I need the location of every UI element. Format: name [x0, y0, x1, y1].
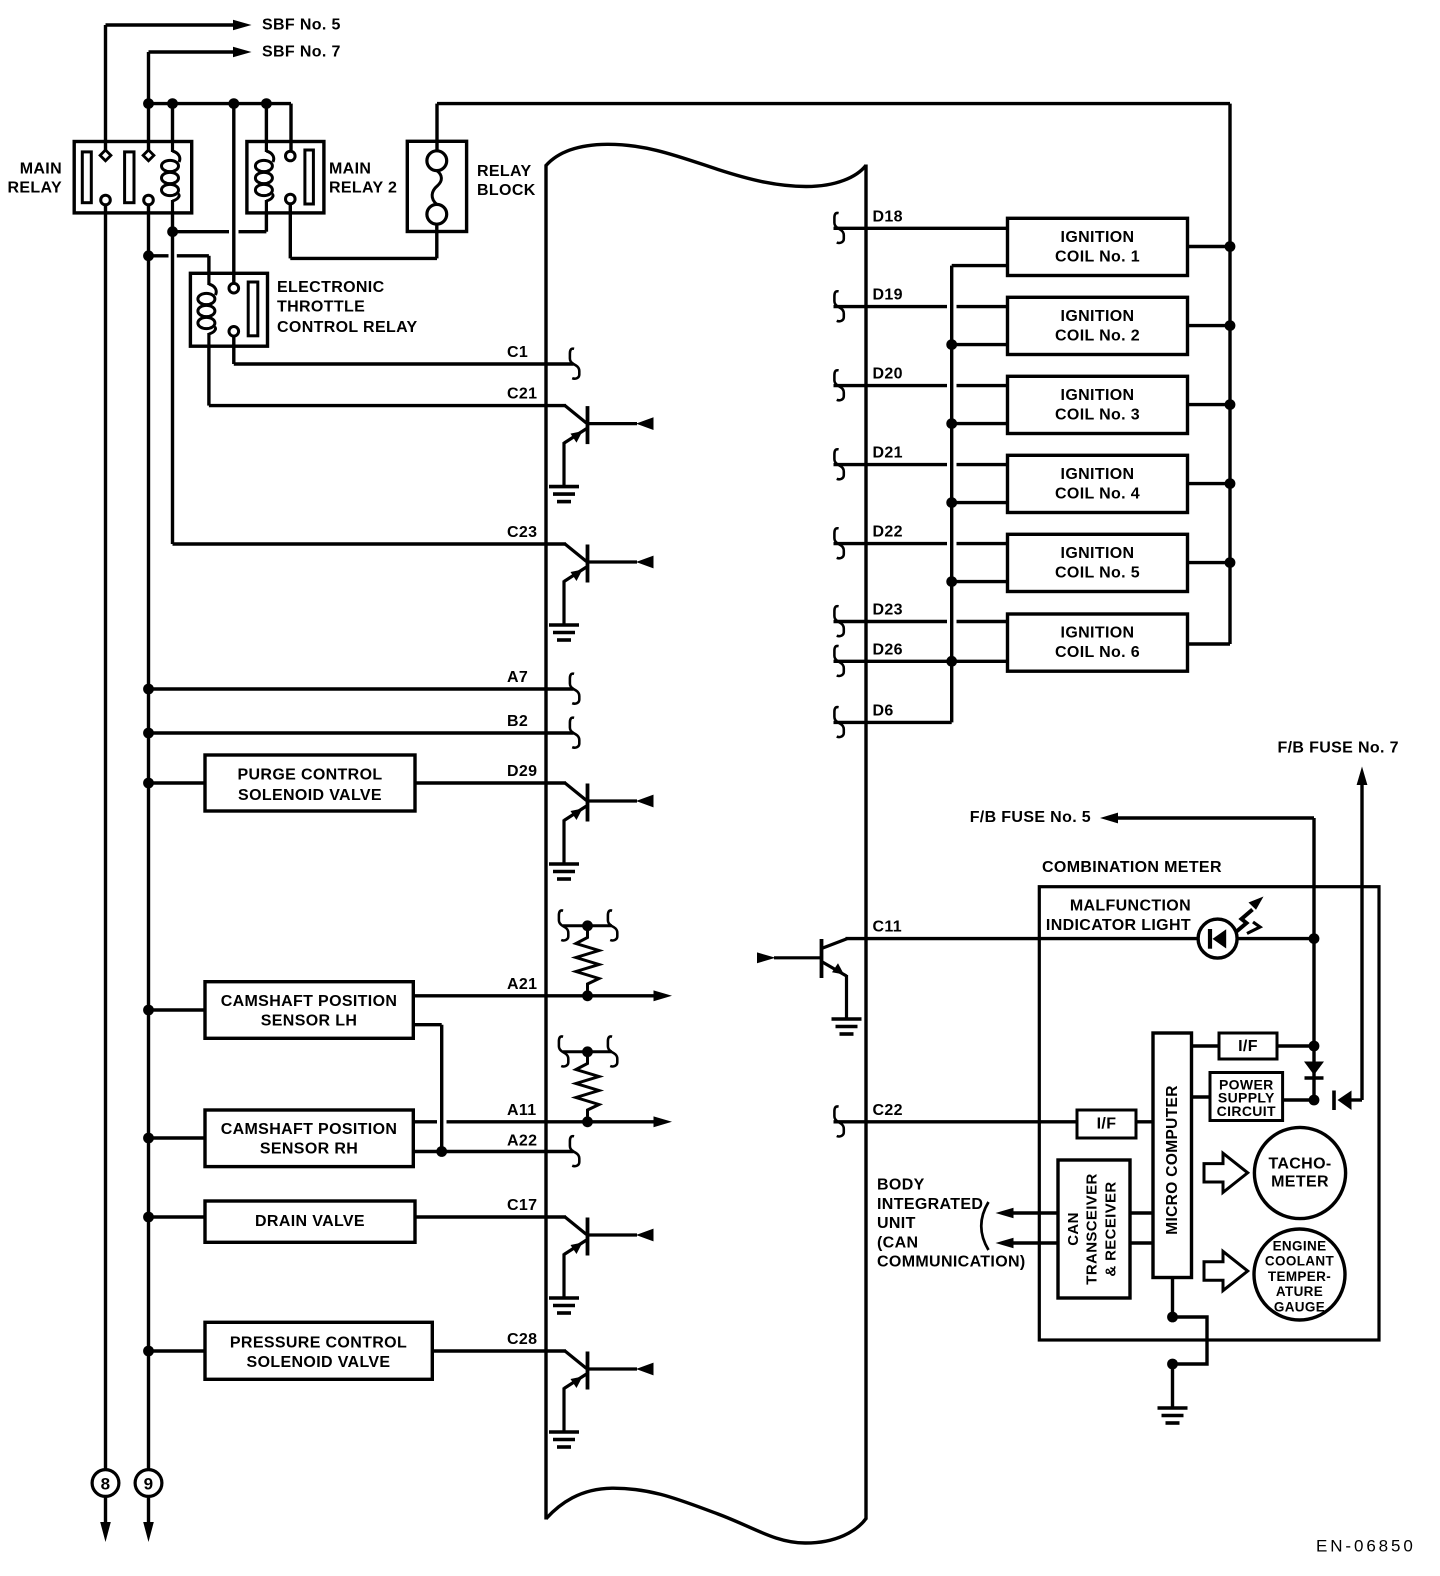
wire bus down to ETC relay top pin (long vertical): [232, 104, 235, 284]
node pressure valve branch: [143, 1346, 154, 1357]
component IGNITION COIL No. 2 box: [1008, 297, 1188, 354]
connector squiggle B2: [570, 718, 579, 748]
node camshaft RH branch: [143, 1133, 154, 1144]
diode pointing down: [1304, 1062, 1324, 1076]
node I/F junction: [1309, 1041, 1320, 1052]
connector squiggle D22: [834, 528, 843, 558]
svg-text:COMBINATION METER: COMBINATION METER: [1042, 859, 1222, 876]
wire C17: [415, 1215, 566, 1218]
wire D20 right part (jump over common line): [957, 384, 1008, 387]
svg-text:COIL No. 5: COIL No. 5: [1055, 564, 1140, 581]
wire D29: [415, 781, 566, 784]
wire ground bypass loop: [1173, 1317, 1208, 1364]
wire power bus left segment: [149, 102, 292, 105]
svg-text:INDICATOR LIGHT: INDICATOR LIGHT: [1046, 917, 1191, 934]
arrowhead A21: [654, 990, 673, 1001]
wire A22: [413, 1150, 573, 1153]
node MIL junction: [1309, 933, 1320, 944]
node bus junction at x=148.5: [143, 98, 154, 109]
coil ETC relay: [198, 275, 216, 346]
wire D22 right part (jump over common line): [957, 542, 1008, 545]
svg-text:CONTROL RELAY: CONTROL RELAY: [277, 319, 418, 336]
svg-text:D22: D22: [873, 524, 903, 541]
node A7 branch: [143, 684, 154, 695]
svg-text:CIRCUIT: CIRCUIT: [1217, 1103, 1276, 1119]
svg-text:C17: C17: [507, 1197, 537, 1214]
gauge ENGINE COOLANT TEMPERATURE circle: [1254, 1229, 1345, 1320]
svg-text:ATURE: ATURE: [1276, 1284, 1323, 1299]
component CAMSHAFT POSITION SENSOR LH box: [205, 982, 413, 1039]
arrowhead down 9: [143, 1522, 154, 1542]
svg-text:TACHO-: TACHO-: [1268, 1156, 1331, 1173]
node common line junction coil 5: [946, 576, 957, 587]
svg-text:F/B FUSE No. 5: F/B FUSE No. 5: [970, 809, 1091, 826]
wire CAN bus out 1: [1012, 1211, 1058, 1214]
wire to chassis ground: [1171, 1364, 1174, 1407]
svg-text:TRANSCEIVER: TRANSCEIVER: [1084, 1173, 1101, 1284]
pin diamond MAIN RELAY contact 1 top: [100, 150, 111, 161]
svg-text:RELAY 2: RELAY 2: [329, 180, 397, 197]
wire F/B FUSE No. 5 horizontal: [1117, 816, 1314, 819]
node coil 5 output on bus: [1225, 557, 1236, 568]
gauge TACHO-METER circle: [1254, 1127, 1345, 1218]
node A22 junction: [436, 1146, 447, 1157]
connector squiggle A7: [570, 674, 579, 704]
transistor at C23 (ECM output driver): [564, 544, 654, 624]
block arrow to coolant gauge: [1204, 1251, 1248, 1290]
wire D22 left part: [834, 542, 948, 545]
diode pointing left: [1332, 1091, 1336, 1111]
svg-text:DRAIN VALVE: DRAIN VALVE: [255, 1213, 365, 1230]
transistor at C28 (ECM output driver): [564, 1351, 654, 1431]
connector squiggle D23: [834, 606, 843, 636]
wire diode to F/B FUSE No.7 line: [1351, 1098, 1362, 1101]
wire D18 to ignition coil 1: [834, 227, 1008, 230]
fusible link bottom terminal circle: [427, 204, 447, 224]
relay MAIN RELAY box: [74, 142, 192, 213]
wire camshaft LH lower output: [413, 1023, 441, 1026]
svg-text:D20: D20: [873, 366, 903, 383]
svg-text:SENSOR RH: SENSOR RH: [260, 1141, 358, 1158]
component CAMSHAFT POSITION SENSOR RH box: [205, 1110, 413, 1167]
svg-text:COIL No. 4: COIL No. 4: [1055, 485, 1140, 502]
svg-text:A11: A11: [507, 1102, 537, 1119]
connector squiggle D18: [834, 213, 843, 243]
component PURGE CONTROL SOLENOID VALVE box: [205, 755, 415, 811]
svg-text:COIL No. 6: COIL No. 6: [1055, 644, 1140, 661]
svg-text:A21: A21: [507, 976, 537, 993]
svg-text:RELAY: RELAY: [7, 180, 62, 197]
svg-text:A22: A22: [507, 1133, 537, 1150]
pull-up resistor network above A21: [563, 924, 612, 927]
wire C1 from ETC relay to ECM: [234, 362, 574, 365]
wire C22 to I/F: [834, 1120, 1078, 1123]
wire relay coil link left part: [173, 230, 230, 233]
wire camshaft LH down to A22 node: [440, 1025, 443, 1152]
wire MAIN RELAY coil to junction: [171, 213, 174, 232]
wire ignition common vertical line: [950, 266, 953, 723]
svg-text:INTEGRATED: INTEGRATED: [877, 1196, 983, 1213]
svg-text:8: 8: [101, 1474, 111, 1493]
wire D21 right part (jump over common line): [957, 463, 1008, 466]
wire SBF7 vertical to MAIN RELAY pin: [147, 52, 150, 150]
connector circle 8: [92, 1470, 119, 1497]
ECM block top wavy edge: [546, 144, 866, 186]
node drain valve branch: [143, 1212, 154, 1223]
transistor at D29 (ECM output driver): [564, 783, 654, 863]
wire main vertical line x=105.5: [104, 205, 107, 1470]
wire I/F to diode node: [1277, 1044, 1314, 1047]
wire I/F left to micro computer: [1136, 1120, 1153, 1123]
wire RELAY BLOCK bottom lead: [435, 224, 438, 258]
wire D19 left part: [834, 305, 948, 308]
contact bar 1 MAIN RELAY: [82, 152, 91, 203]
wire micro computer to power supply: [1192, 1095, 1210, 1098]
svg-text:IGNITION: IGNITION: [1061, 625, 1135, 642]
svg-text:MICRO COMPUTER: MICRO COMPUTER: [1164, 1085, 1181, 1235]
svg-text:METER: METER: [1271, 1174, 1329, 1191]
wire A7: [149, 687, 574, 690]
wire ignition coil 5 output: [1188, 561, 1231, 564]
component I/F box left: [1077, 1110, 1136, 1138]
wire F/B FUSE No. 5 vertical down: [1312, 818, 1315, 1100]
svg-text:C1: C1: [507, 344, 528, 361]
svg-text:C28: C28: [507, 1331, 537, 1348]
node camshaft LH branch: [143, 1005, 154, 1016]
node A21 resistor top: [582, 920, 593, 931]
svg-text:I/F: I/F: [1238, 1038, 1258, 1055]
node coil 1 output on bus: [1225, 241, 1236, 252]
pin circle MAIN RELAY contact 1 bottom: [101, 195, 111, 205]
connector squiggle D6: [834, 707, 843, 737]
svg-text:MAIN: MAIN: [20, 161, 62, 178]
component IGNITION COIL No. 4 box: [1008, 455, 1188, 512]
wire micro computer to ground loop: [1171, 1278, 1174, 1318]
ground at D29 transistor emitter: [549, 862, 579, 866]
component COMBINATION METER box: [1039, 887, 1379, 1340]
wire power supply circuit to diode node: [1283, 1098, 1314, 1101]
svg-text:PRESSURE CONTROL: PRESSURE CONTROL: [230, 1335, 407, 1352]
svg-text:& RECEIVER: & RECEIVER: [1103, 1181, 1120, 1276]
svg-text:D29: D29: [507, 763, 537, 780]
wire below connector 8: [104, 1497, 107, 1525]
node A21 junction on wire: [582, 990, 593, 1001]
wire ignition coil 3 output: [1188, 403, 1231, 406]
svg-text:MAIN: MAIN: [329, 161, 371, 178]
node coil link junction: [167, 226, 178, 237]
wire D23 right part (jump over common line): [957, 620, 1008, 623]
wire common to coil 2 lower terminal: [952, 343, 1008, 346]
wire bus corner down to MAIN RELAY 2 top pin: [289, 104, 292, 151]
pin circle ETC relay top: [229, 283, 239, 293]
connector squiggle C22: [834, 1106, 843, 1136]
svg-text:C21: C21: [507, 386, 537, 403]
svg-text:COIL No. 3: COIL No. 3: [1055, 406, 1140, 423]
connector circle 9: [135, 1470, 162, 1497]
svg-text:D21: D21: [873, 445, 903, 462]
node common line junction coil 3: [946, 418, 957, 429]
ECM block bottom wavy edge: [546, 1488, 866, 1543]
arrowhead A11: [654, 1116, 673, 1127]
node ground loop bottom: [1167, 1359, 1178, 1370]
arrowhead SBF No. 7: [233, 47, 252, 57]
connector squiggle D26: [834, 646, 843, 676]
ground at C21 transistor emitter: [549, 485, 579, 489]
node A11 junction on wire: [582, 1116, 593, 1127]
svg-text:CAMSHAFT POSITION: CAMSHAFT POSITION: [221, 1121, 398, 1138]
wire A11 left part: [413, 1120, 437, 1123]
fusible link S-curve: [432, 171, 441, 205]
wire D6: [834, 721, 952, 724]
connector squiggle left of A21 resistor: [559, 910, 568, 940]
wire MAIN RELAY 2 coil bottom lead: [265, 213, 268, 232]
component IGNITION COIL No. 5 box: [1008, 534, 1188, 591]
connector squiggle D21: [834, 449, 843, 479]
wire A21: [413, 994, 656, 997]
ground at C23 transistor emitter: [549, 623, 579, 627]
relay ELECTRONIC THROTTLE CONTROL RELAY box: [190, 273, 267, 346]
svg-text:ENGINE: ENGINE: [1273, 1238, 1327, 1253]
svg-text:THROTTLE: THROTTLE: [277, 299, 365, 316]
wire common to coil 1 lower terminal: [952, 264, 1008, 267]
node bus junction at x=233.8: [228, 98, 239, 109]
svg-text:COOLANT: COOLANT: [1265, 1254, 1335, 1269]
ground at C17 transistor emitter: [549, 1296, 579, 1300]
svg-text:IGNITION: IGNITION: [1061, 466, 1135, 483]
node power supply junction: [1309, 1095, 1320, 1106]
svg-text:SOLENOID VALVE: SOLENOID VALVE: [247, 1354, 391, 1371]
ground at C11 transistor emitter: [832, 1017, 862, 1021]
wire micro computer to I/F top: [1192, 1044, 1219, 1047]
LED lightning arrow: [1237, 910, 1253, 932]
wire D19 right part (jump over common line): [957, 305, 1008, 308]
wire bus to MAIN RELAY coil: [171, 104, 174, 142]
contact bar 2 MAIN RELAY: [125, 152, 134, 203]
wire main vertical line x=148.5: [147, 205, 150, 1470]
wire ETC coil bottom down to C21: [207, 346, 210, 405]
node bus junction at x=266.4: [261, 98, 272, 109]
svg-text:COMMUNICATION): COMMUNICATION): [877, 1254, 1026, 1271]
svg-text:A7: A7: [507, 669, 528, 686]
wire C21 from ETC coil to ECM: [209, 404, 566, 407]
coil MAIN RELAY 2: [255, 142, 273, 213]
wire power bus right segment to ignition coils: [437, 102, 1230, 105]
wire to drain valve: [149, 1215, 206, 1218]
wire ignition coil 6 output: [1188, 642, 1231, 645]
arrowhead left F/B FUSE No. 5: [1100, 813, 1118, 824]
svg-text:D23: D23: [873, 602, 903, 619]
wire F/B FUSE No. 7 vertical: [1360, 783, 1363, 1100]
wire CAN to micro computer 2: [1130, 1241, 1153, 1244]
svg-text:SBF No. 7: SBF No. 7: [262, 44, 341, 61]
connector arc body integrated unit: [981, 1202, 988, 1250]
coil MAIN RELAY: [162, 142, 180, 213]
pin circle MAIN RELAY 2 top: [286, 151, 296, 161]
wire bus down to RELAY BLOCK: [435, 104, 438, 151]
wire ETC relay coil feed left part: [149, 254, 169, 257]
connector squiggle A22: [570, 1136, 579, 1166]
ground at C28 transistor emitter: [549, 1430, 579, 1434]
svg-text:COIL No. 1: COIL No. 1: [1055, 248, 1140, 265]
resistor at A21: [576, 930, 599, 991]
svg-text:UNIT: UNIT: [877, 1215, 916, 1232]
pin circle MAIN RELAY contact 2 bottom: [144, 195, 154, 205]
pin circle MAIN RELAY 2 bottom: [286, 194, 296, 204]
contact bar ETC relay: [248, 282, 258, 336]
svg-text:PURGE CONTROL: PURGE CONTROL: [238, 767, 383, 784]
wire D20 left part: [834, 384, 948, 387]
node ETC relay feed junction: [143, 250, 154, 261]
wire SBF No. 5 feed: [106, 23, 234, 26]
svg-text:BLOCK: BLOCK: [477, 182, 536, 199]
svg-text:BODY: BODY: [877, 1177, 925, 1194]
svg-text:CAN: CAN: [1065, 1212, 1082, 1246]
wire to camshaft sensor RH: [149, 1136, 206, 1139]
node coil 3 output on bus: [1225, 399, 1236, 410]
svg-text:IGNITION: IGNITION: [1061, 308, 1135, 325]
svg-text:B2: B2: [507, 713, 528, 730]
component PRESSURE CONTROL SOLENOID VALVE box: [205, 1322, 432, 1379]
svg-text:D6: D6: [873, 702, 894, 719]
wire ignition coil 4 output: [1188, 482, 1231, 485]
svg-text:GAUGE: GAUGE: [1274, 1300, 1325, 1315]
svg-text:D18: D18: [873, 208, 903, 225]
component CAN TRANSCEIVER & RECEIVER box: [1058, 1160, 1130, 1298]
wire CAN bus out 2: [1012, 1241, 1058, 1244]
pin circle ETC relay bottom: [229, 327, 239, 337]
svg-text:D19: D19: [873, 287, 903, 304]
component POWER SUPPLY CIRCUIT box: [1210, 1073, 1283, 1121]
svg-text:SBF No. 5: SBF No. 5: [262, 17, 341, 34]
svg-text:IGNITION: IGNITION: [1061, 229, 1135, 246]
arrowhead SBF No. 5: [233, 20, 252, 30]
wire C11 to malfunction indicator light: [846, 937, 1199, 940]
svg-text:SENSOR LH: SENSOR LH: [261, 1013, 358, 1030]
LED malfunction indicator light: [1198, 919, 1237, 958]
svg-text:EN-06850: EN-06850: [1316, 1537, 1416, 1556]
arrowhead up F/B FUSE No. 7: [1357, 767, 1368, 786]
node common line junction coil 4: [946, 497, 957, 508]
wire common to coil 5 lower terminal: [952, 580, 1008, 583]
wire LED to F/B No.5 line: [1237, 937, 1314, 940]
node coil 2 output on bus: [1225, 320, 1236, 331]
transistor at C17 (ECM output driver): [564, 1217, 654, 1297]
transistor at C21 (ECM output driver): [564, 406, 654, 486]
pull-up resistor network above A11: [563, 1050, 612, 1053]
relay block box: [407, 141, 466, 231]
wire A11 right part (jump over): [447, 1120, 657, 1123]
svg-text:MALFUNCTION: MALFUNCTION: [1070, 898, 1191, 915]
svg-text:F/B FUSE No. 7: F/B FUSE No. 7: [1278, 740, 1399, 757]
node D26 on common line: [946, 656, 957, 667]
ground below combination meter: [1158, 1406, 1188, 1410]
wire to camshaft sensor LH: [149, 1008, 206, 1011]
wire from relay coils down to C23: [171, 232, 174, 544]
svg-text:(CAN: (CAN: [877, 1234, 918, 1251]
svg-text:C23: C23: [507, 524, 537, 541]
wire SBF5 vertical to MAIN RELAY pin: [104, 25, 107, 150]
arrowhead down 8: [100, 1522, 111, 1542]
component IGNITION COIL No. 3 box: [1008, 376, 1188, 433]
svg-text:9: 9: [144, 1474, 154, 1493]
svg-text:COIL No. 2: COIL No. 2: [1055, 327, 1140, 344]
wire common to coil 4 lower terminal: [952, 501, 1008, 504]
node A11 resistor top: [582, 1046, 593, 1057]
svg-text:IGNITION: IGNITION: [1061, 387, 1135, 404]
wire C28: [432, 1349, 566, 1352]
pin diamond MAIN RELAY contact 2 top: [143, 150, 154, 161]
node purge valve branch: [143, 778, 154, 789]
wire MAIN RELAY 2 to RELAY BLOCK: [290, 257, 437, 260]
resistor at A11: [576, 1056, 599, 1117]
node ground loop top: [1167, 1312, 1178, 1323]
ECM block left edge: [544, 165, 547, 1520]
svg-text:C22: C22: [873, 1102, 903, 1119]
wire D26 to ignition coil 6: [834, 660, 1008, 663]
wire relay coil link right part (jump over): [239, 230, 267, 233]
component IGNITION COIL No. 1 box: [1008, 218, 1188, 275]
svg-text:RELAY: RELAY: [477, 163, 532, 180]
wire CAN to micro computer 1: [1130, 1211, 1153, 1214]
relay MAIN RELAY 2 box: [247, 142, 324, 213]
wire bus to MAIN RELAY 2 coil: [265, 104, 268, 142]
connector squiggle left of A11 resistor: [559, 1036, 568, 1066]
connector squiggle right of A11 resistor: [608, 1036, 617, 1066]
wire ETC relay coil feed right part (jump over): [177, 254, 209, 257]
svg-text:D26: D26: [873, 641, 903, 658]
wire D21 left part: [834, 463, 948, 466]
node common line junction coil 2: [946, 339, 957, 350]
svg-text:C11: C11: [873, 919, 903, 936]
ECM block right edge: [864, 165, 867, 1520]
connector squiggle right of A21 resistor: [608, 910, 617, 940]
block arrow to tachometer: [1204, 1153, 1248, 1192]
wire feed corner into ETC coil: [207, 256, 210, 275]
connector squiggle D19: [834, 291, 843, 321]
component MICRO COMPUTER box: [1153, 1033, 1192, 1278]
component DRAIN VALVE box: [205, 1201, 415, 1242]
node coil 4 output on bus: [1225, 478, 1236, 489]
connector squiggle C1: [570, 349, 579, 379]
wire ignition coil 2 output: [1188, 324, 1231, 327]
arrowhead CAN bus 2: [996, 1238, 1014, 1248]
svg-text:ELECTRONIC: ELECTRONIC: [277, 279, 385, 296]
contact bar MAIN RELAY 2: [305, 150, 314, 204]
arrowhead CAN bus 1: [996, 1208, 1014, 1218]
fusible link top terminal circle: [427, 151, 447, 171]
wire C23: [173, 542, 567, 545]
svg-text:I/F: I/F: [1097, 1116, 1117, 1133]
connector squiggle D20: [834, 370, 843, 400]
node B2 branch: [143, 728, 154, 739]
wire SBF No. 7 feed: [149, 50, 234, 53]
wire B2: [149, 731, 574, 734]
wire to purge valve: [149, 781, 206, 784]
wire ignition coil 1 output: [1188, 245, 1231, 248]
wire below connector 9: [147, 1497, 150, 1525]
component IGNITION COIL No. 6 box: [1008, 614, 1188, 671]
wire common to coil 3 lower terminal: [952, 422, 1008, 425]
svg-text:CAMSHAFT POSITION: CAMSHAFT POSITION: [221, 993, 398, 1010]
svg-text:IGNITION: IGNITION: [1061, 545, 1135, 562]
wire ETC bottom pin down to C1: [232, 336, 235, 364]
wire MAIN RELAY 2 bottom pin down: [289, 204, 292, 258]
wire ignition supply bus vertical: [1228, 104, 1231, 644]
transistor at C11 (MIL driver): [757, 939, 847, 1018]
wire D23 left part: [834, 620, 948, 623]
svg-text:TEMPER-: TEMPER-: [1268, 1269, 1331, 1284]
wire to pressure control valve: [149, 1349, 206, 1352]
